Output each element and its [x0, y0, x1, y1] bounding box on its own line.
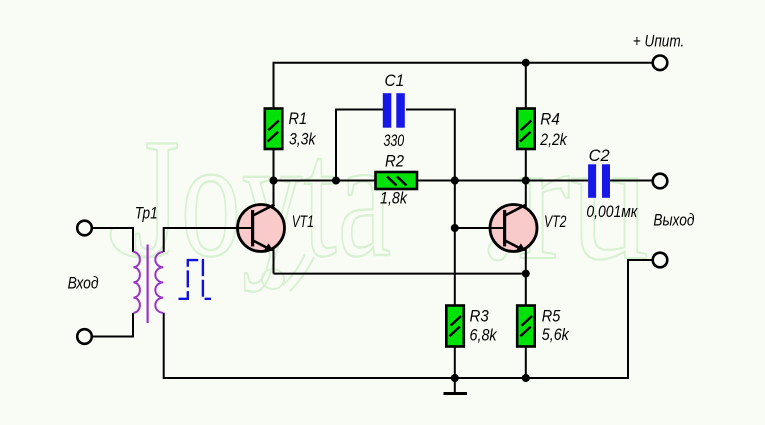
transistor VT1 [238, 205, 285, 252]
wire R1 bottom to middle rail [273, 149, 275, 181]
svg-text:1,8k: 1,8k [380, 189, 408, 208]
wire input top terminal to transformer [93, 228, 134, 252]
svg-text:R5: R5 [542, 306, 561, 325]
wire VT2 emitter to R5 [525, 249, 527, 378]
capacitor C2 [588, 164, 610, 198]
svg-text:VT2: VT2 [544, 212, 567, 231]
svg-text:6,8k: 6,8k [470, 326, 498, 345]
wire top supply rail [274, 63, 652, 109]
transistor VT2 [490, 205, 537, 252]
svg-text:Выход: Выход [653, 211, 694, 230]
svg-text:Тр1: Тр1 [135, 204, 158, 223]
wire secondary top to VT1 base [164, 228, 253, 252]
svg-text:R1: R1 [289, 109, 308, 128]
resistor R5 [517, 306, 535, 347]
terminal +U [653, 56, 668, 71]
svg-text:VT1: VT1 [292, 212, 314, 231]
ground [444, 378, 468, 394]
watermark y tail swash [262, 254, 314, 291]
resistor R2 [376, 172, 418, 189]
terminal output [653, 174, 668, 189]
transformer Tp1 [133, 245, 163, 324]
wire VT2 base lead [455, 227, 505, 229]
svg-text:+ Uпит.: + Uпит. [633, 32, 685, 51]
svg-text:C2: C2 [589, 146, 611, 165]
resistor R3 [446, 306, 464, 347]
wire middle column node B2 [454, 181, 456, 379]
wire VT1 emitter down [273, 249, 275, 274]
wire VT1 collector [273, 181, 275, 208]
watermark J tail swash [111, 228, 170, 258]
svg-text:2,2k: 2,2k [539, 130, 568, 149]
wire C1 branch [336, 110, 455, 181]
svg-text:5,6k: 5,6k [542, 325, 570, 344]
pulse waveform symbol [179, 260, 212, 299]
capacitor C1 [383, 93, 405, 128]
wire ground return rail [164, 260, 652, 378]
wire emitter rail VT1-VT2 [274, 273, 526, 275]
terminal input top [77, 221, 92, 236]
watermark .ru [478, 103, 649, 296]
svg-text:Вход: Вход [68, 274, 99, 293]
svg-text:R4: R4 [540, 110, 560, 129]
terminal output return [653, 253, 668, 268]
svg-text:3,3k: 3,3k [289, 130, 317, 149]
resistor R4 [517, 109, 535, 150]
svg-text:C1: C1 [385, 71, 405, 90]
wire middle rail [274, 180, 652, 182]
svg-text:Joyta: Joyta [133, 104, 392, 292]
svg-text:R2: R2 [385, 152, 405, 171]
svg-text:0,001мк: 0,001мк [586, 202, 638, 221]
wire input bottom terminal to transformer [93, 313, 134, 337]
svg-text:R3: R3 [470, 306, 490, 325]
terminal input bottom [77, 329, 92, 344]
wire VT2 collector [525, 181, 527, 208]
resistor R1 [265, 109, 283, 150]
watermark Joyta [133, 104, 392, 292]
svg-text:330: 330 [384, 131, 405, 150]
wire R4 column [525, 63, 527, 181]
